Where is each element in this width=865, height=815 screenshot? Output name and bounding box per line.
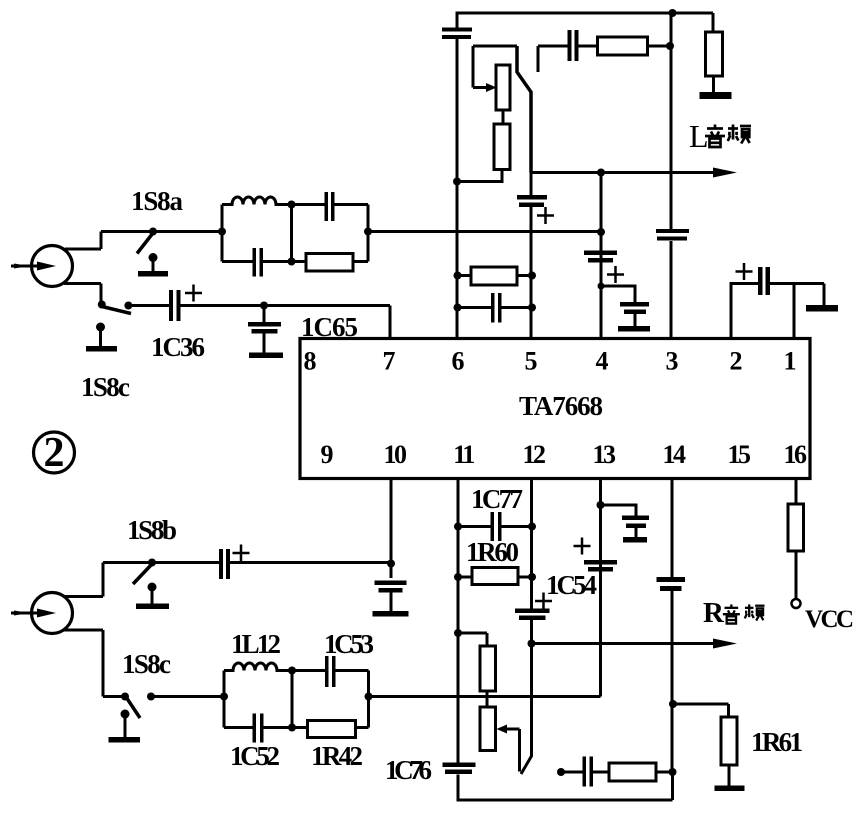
wire jack R lower to switch 1S8c (64, 630, 125, 697)
wire long input line to pin4 node (368, 230, 601, 233)
svg-text:1C76: 1C76 (385, 755, 432, 785)
wire pin3 vertical (670, 13, 673, 229)
svg-text:1C65: 1C65 (301, 312, 358, 342)
wire pin4 vertical (600, 173, 603, 339)
ground (1S8c upper pole) (96, 323, 105, 332)
LC network top : left edge (221, 205, 224, 262)
svg-text:6: 6 (452, 347, 465, 376)
svg-text:4: 4 (596, 347, 609, 376)
capacitor 1C52 (224, 726, 253, 729)
glyphs 音频 for L output (705, 125, 725, 148)
svg-text:2: 2 (730, 347, 743, 376)
capacitor to bar (pin4 branch) (601, 286, 635, 302)
wire top supply rail (456, 12, 714, 15)
capacitor (pin14 line) (657, 577, 686, 582)
svg-text:1R60: 1R60 (466, 537, 519, 567)
electrolytic capacitor (pin12) (515, 609, 550, 614)
svg-text:13: 13 (593, 440, 617, 469)
wire network to pin13 (369, 479, 601, 697)
LC network bottom : left edge (223, 671, 226, 728)
switch 1S8c upper (98, 301, 106, 309)
right edge (top network) (367, 205, 370, 262)
ground (1S8c lower pole) (121, 710, 130, 719)
resistor 1R61 (669, 700, 677, 708)
circled figure number 2 (34, 432, 75, 473)
ground (1S8a pole) (149, 253, 158, 262)
resistor 1R60 (454, 573, 462, 581)
capacitor between pin6 and pin5 lines (454, 304, 462, 312)
capacitor to bar (pin13 branch) (601, 505, 637, 516)
wire jack R to switch 1S8b (64, 563, 152, 597)
input jack L channel (32, 246, 73, 287)
wire pot wiper blade to pin5 line (517, 46, 531, 173)
inductor (top network) (222, 197, 290, 204)
potentiometer (bottom) (454, 629, 462, 637)
svg-text:1S8c: 1S8c (122, 649, 171, 679)
resistor (top network lower) (306, 254, 353, 272)
junction series RC / pin3 line (666, 42, 674, 50)
plus sign (pin2 cap) (736, 263, 753, 280)
resistor top right (712, 13, 715, 32)
svg-text:1C77: 1C77 (471, 484, 523, 514)
plus sign (pin5 cap) (537, 207, 554, 224)
wire pin14 vertical (671, 479, 674, 578)
capacitor 1C77 (454, 523, 462, 531)
junction pin4 / long input line (597, 228, 605, 236)
wire pin5 vertical (530, 173, 533, 196)
capacitor 1C53 (292, 669, 325, 672)
plus sign (pin4 cap) (607, 266, 624, 283)
electrolytic capacitor pin2/pin1 (758, 267, 763, 295)
wire pin16 to VCC (795, 479, 798, 505)
switch 1S8c lower (121, 693, 129, 701)
svg-text:VCC: VCC (805, 606, 854, 633)
svg-text:1: 1 (784, 347, 797, 376)
junction top rail / pin3 line (669, 9, 677, 17)
potentiometer (top, trimmer with wiper loop) (473, 45, 517, 48)
wire pin2 vertical (731, 284, 758, 339)
svg-text:16: 16 (784, 440, 808, 469)
electrolytic capacitor on pin5 line (517, 195, 547, 200)
svg-text:1C53: 1C53 (324, 629, 374, 659)
svg-text:12: 12 (523, 440, 546, 469)
wire jack L lower to switch 1S8c (64, 284, 101, 305)
wire to pin7 (264, 306, 390, 339)
resistor 1R42 (308, 721, 356, 738)
wire pin10 vertical (390, 479, 393, 564)
wire pin6 vertical (456, 13, 459, 28)
IC U1 TA7668 (300, 339, 810, 479)
plus sign (pin12 cap) (535, 593, 552, 610)
electrolytic capacitor (1S8b row) (152, 561, 219, 564)
capacitor on pin3 line (656, 229, 689, 233)
svg-text:1L12: 1L12 (231, 629, 281, 659)
VCC terminal (792, 599, 801, 608)
capacitor series top middle (left stub) (537, 46, 540, 72)
switch 1S8b (148, 559, 156, 567)
wire pin12 vertical (530, 479, 533, 609)
svg-text:1R42: 1R42 (311, 741, 363, 771)
junction pin4 / decoupling branch (598, 283, 605, 290)
plus sign (1C54) (574, 538, 591, 555)
switch 1S8a (149, 228, 157, 236)
svg-text:1C36: 1C36 (151, 332, 205, 362)
junction pot bottom / pin6 line (453, 178, 461, 186)
node L out / pin4 line (597, 169, 605, 177)
capacitor to bar (pin10) (390, 564, 393, 579)
svg-text:15: 15 (728, 440, 752, 469)
capacitor (top network lower) (222, 260, 253, 263)
input jack R channel (32, 593, 73, 634)
ground (top right resistor) (700, 92, 732, 99)
plus sign (1S8b cap) (233, 545, 250, 562)
svg-text:1C54: 1C54 (546, 570, 597, 600)
svg-text:1S8c: 1S8c (81, 372, 130, 402)
resistor between pin6 and pin5 lines (454, 272, 462, 280)
wire jack L to switch 1S8a (65, 232, 222, 250)
capacitor (top network upper) (292, 203, 325, 206)
wire mid vertical (bottom network) (291, 671, 294, 728)
svg-text:7: 7 (383, 347, 396, 376)
ground (1R61) (715, 786, 745, 792)
svg-text:3: 3 (666, 347, 679, 376)
svg-text:R: R (703, 597, 725, 629)
svg-text:1R61: 1R61 (751, 727, 803, 757)
L audio output wire (531, 171, 713, 174)
glyphs 音频 for R output (723, 604, 765, 623)
ground (pin1 area) (823, 284, 826, 306)
capacitor 1C76 (443, 763, 476, 768)
ground (1S8b pole) (148, 583, 157, 592)
svg-text:5: 5 (525, 347, 538, 376)
svg-text:2: 2 (44, 430, 65, 476)
resistor series top middle (598, 37, 648, 55)
svg-text:10: 10 (384, 440, 408, 469)
wire pin1 vertical (793, 284, 796, 339)
svg-text:11: 11 (453, 440, 474, 469)
capacitor on pin6 line (top) (442, 28, 472, 32)
plus sign (1C36) (185, 285, 202, 302)
electrolytic capacitor on pin4 line (584, 251, 617, 256)
electrolytic capacitor 1C54 (584, 560, 617, 565)
wire mid vertical (top network) (290, 205, 293, 262)
svg-text:8: 8 (304, 347, 317, 376)
capacitor 1C36 (169, 290, 173, 321)
svg-text:1C52: 1C52 (230, 741, 280, 771)
R audio output wire (528, 640, 536, 648)
wire pin11 vertical (457, 479, 460, 763)
capacitor 1C65 (to bar) (260, 302, 268, 310)
svg-text:TA7668: TA7668 (519, 391, 603, 421)
inductor 1L12 (224, 663, 291, 671)
right edge (bottom network) (367, 671, 370, 728)
svg-text:14: 14 (663, 440, 687, 469)
series capacitor + resistor (bottom) (557, 768, 565, 776)
junction pin13 branch (597, 501, 605, 509)
svg-text:1S8b: 1S8b (127, 515, 177, 545)
svg-text:1S8a: 1S8a (131, 186, 184, 216)
svg-text:9: 9 (321, 440, 334, 469)
